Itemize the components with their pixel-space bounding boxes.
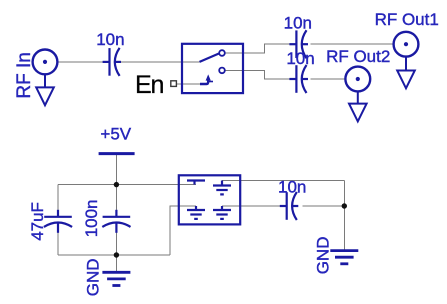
ground triangle at RF In [36, 74, 54, 105]
svg-text:+5V: +5V [100, 125, 131, 144]
switch contact top [219, 50, 225, 56]
U2 internal ground top-right [213, 181, 231, 195]
capacitor C6 100n [102, 210, 130, 233]
wire U2 mid-right to C4 [222, 205, 280, 207]
switch box U1 [182, 44, 243, 93]
IC box U2 [179, 175, 240, 224]
capacitor C5 47uF [44, 210, 72, 233]
capacitor C1 10n [103, 48, 121, 76]
ground triangle at RF Out1 [397, 57, 415, 89]
power +5V bar [99, 152, 135, 155]
wire +5V rail [58, 184, 196, 186]
wire ground rail bottom [58, 254, 170, 256]
wire 47uF bottom lead [57, 233, 59, 255]
svg-text:En: En [135, 71, 163, 99]
capacitor C4 10n (supply) [280, 192, 299, 220]
svg-text:10n: 10n [286, 49, 314, 68]
wire En pin to switch [177, 83, 201, 85]
wire 47uF top lead [57, 185, 59, 210]
connector RF Out1 [394, 32, 419, 57]
wire switch bottom contact to C3 [225, 70, 290, 79]
svg-text:100n: 100n [82, 199, 101, 237]
wire C3 to RF Out2 [311, 78, 346, 80]
wire C1 to switch common [121, 61, 200, 63]
wire center GND stub [115, 255, 117, 272]
junction dot right [342, 203, 347, 208]
wire right vertical to GND [343, 181, 345, 250]
connector RF In [33, 50, 58, 75]
junction dot +5V rail [114, 182, 119, 187]
svg-text:10n: 10n [96, 30, 124, 49]
svg-text:10n: 10n [278, 178, 306, 197]
svg-text:GND: GND [84, 258, 103, 296]
switch blade [200, 53, 220, 62]
wire C2 to RF Out1 [311, 43, 394, 45]
svg-text:47uF: 47uF [28, 202, 47, 241]
pin square En [171, 81, 177, 87]
wire switch top contact to C2 [225, 44, 290, 53]
U2 internal power bar pin [187, 181, 205, 185]
wire 100n bottom lead [115, 233, 117, 255]
ground triangle at RF Out2 [349, 92, 367, 122]
U2 internal ground bottom-left [187, 206, 205, 219]
U2 internal ground bottom-right [213, 206, 231, 219]
switch actuator arrow [200, 74, 213, 84]
connector RF Out2 [345, 67, 370, 92]
wire C4 to junction [303, 205, 345, 207]
capacitor C2 10n (RF Out1) [289, 30, 308, 58]
ground symbol center GND [102, 272, 130, 285]
wire U2 top-right to right vertical [222, 180, 344, 182]
wire +5V bar to rail junction [115, 154, 117, 185]
svg-text:RF Out1: RF Out1 [375, 10, 439, 29]
wire 100n top lead [115, 185, 117, 210]
ground symbol right GND [330, 251, 358, 264]
junction dot ground rail [114, 252, 119, 257]
switch contact bottom [219, 68, 225, 74]
wire U2 lower-left ground return [170, 206, 196, 255]
capacitor C3 10n (RF Out2) [289, 65, 308, 93]
svg-text:RF In: RF In [14, 52, 35, 98]
wire RF In to C1 [57, 61, 103, 63]
svg-text:10n: 10n [284, 14, 312, 33]
svg-text:GND: GND [313, 237, 332, 275]
svg-text:RF Out2: RF Out2 [326, 47, 390, 66]
